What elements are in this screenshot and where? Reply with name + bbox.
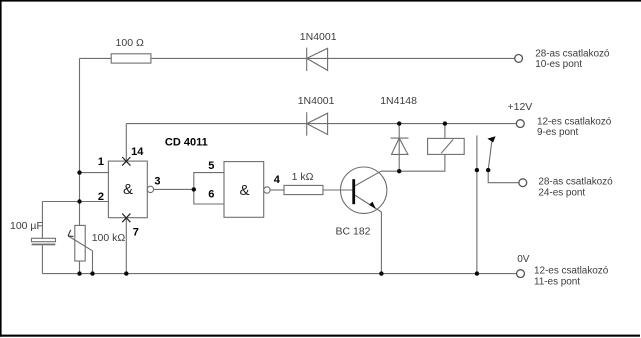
svg-text:9-es pont: 9-es pont [537, 127, 579, 138]
potentiometer P1 wiper arrow [68, 230, 74, 237]
junction dot gate1 pin1 [77, 170, 81, 174]
svg-text:7: 7 [133, 227, 139, 239]
potentiometer P1 wiper diagonal [68, 236, 93, 251]
transistor Q1 circle [341, 167, 387, 213]
transistor Q1 base bar [352, 179, 355, 204]
wire relay bottom [381, 154, 445, 171]
wire resistor to base [323, 189, 353, 191]
nand gate U1b output bubble pin4 [264, 187, 270, 193]
resistor R2 1k [284, 185, 323, 194]
wire top-left horizontal [80, 57, 112, 59]
wire pot wiper down [92, 251, 94, 274]
junction dot switch pole [475, 168, 479, 172]
junction dot rail emitter [379, 271, 383, 275]
svg-text:4: 4 [274, 174, 281, 186]
wire gate1 input pin2 [42, 201, 108, 203]
svg-text:&: & [239, 182, 249, 199]
nand gate U1b box [224, 162, 264, 218]
wire diode D3 vertical [398, 124, 400, 172]
svg-text:28-as csatlakozó: 28-as csatlakozó [538, 177, 613, 188]
wire switch pole vertical [476, 135, 478, 273]
wire gate1 output to gate2 [154, 188, 194, 190]
wire capacitor down [41, 245, 43, 273]
svg-text:0V: 0V [517, 254, 530, 265]
junction dot gate2 input [192, 187, 196, 191]
junction dot gate1 pin2 [77, 199, 81, 203]
svg-text:12-es csatlakozó: 12-es csatlakozó [534, 266, 609, 277]
svg-text:11-es pont: 11-es pont [534, 276, 580, 287]
junction dot row2 relay top [443, 121, 447, 125]
diode D2 1N4001 bar [306, 112, 308, 135]
transistor Q1 emitter line [355, 195, 382, 212]
wire capacitor branch horizontal [41, 202, 43, 239]
junction dot switch blade pivot [486, 168, 490, 172]
transistor Q1 collector line [355, 171, 381, 186]
pin14 X mark [122, 157, 130, 166]
wire pot bottom stub [79, 261, 81, 274]
diode D1 1N4001 bar [306, 48, 308, 71]
wire row2 horizontal [126, 123, 516, 125]
diode D2 1N4001 triangle [307, 113, 328, 134]
svg-text:1N4001: 1N4001 [300, 31, 337, 43]
relay K1 diagonal [441, 139, 453, 153]
junction dot row2 diode top [397, 121, 401, 125]
wire emitter vertical [380, 212, 382, 274]
wire bottom rail [42, 273, 516, 275]
wire gate2 input bracket [194, 173, 224, 204]
svg-text:BC 182: BC 182 [336, 225, 371, 237]
border frame bottom [0, 335, 640, 337]
svg-text:10-es pont: 10-es pont [535, 59, 582, 70]
svg-text:28-as csatlakozó: 28-as csatlakozó [535, 49, 610, 60]
wire gate1 input pin1 [80, 172, 109, 174]
svg-text:12-es csatlakozó: 12-es csatlakozó [537, 117, 612, 128]
nand gate U1a output bubble pin3 [147, 186, 153, 192]
junction dot diode bottom [397, 169, 401, 173]
border frame left [0, 0, 2, 337]
terminal T1 circle [515, 55, 523, 63]
svg-text:+12V: +12V [508, 101, 533, 113]
terminal T2 circle [516, 120, 524, 128]
nand gate U1a box [108, 161, 147, 218]
wire relay top [444, 124, 446, 139]
relay K1 coil box [428, 138, 465, 154]
junction dot rail switch [475, 271, 479, 275]
wire pin14 vertical [125, 124, 127, 162]
svg-text:1: 1 [98, 156, 104, 168]
wire pin7 vertical [125, 218, 127, 274]
border frame top [0, 0, 641, 2]
wire top row to terminal [151, 57, 515, 59]
switch S1 arrow head [487, 136, 495, 142]
wire gate2 output to resistor [270, 189, 284, 191]
svg-text:6: 6 [208, 189, 214, 201]
svg-text:1N4001: 1N4001 [298, 95, 335, 107]
terminal T3 circle [519, 179, 527, 187]
svg-text:24-es pont: 24-es pont [538, 187, 585, 198]
capacitor C1 top plate [32, 238, 56, 241]
svg-text:100 µF: 100 µF [10, 220, 43, 232]
svg-text:CD 4011: CD 4011 [165, 137, 208, 149]
wire switch to terminal [488, 170, 519, 183]
junction dot rail wiper [90, 271, 94, 275]
junction dot rail pin7 [124, 271, 128, 275]
resistor R1 100ohm [111, 54, 151, 63]
capacitor C1 bottom plate [32, 244, 56, 246]
pin7 X mark [122, 214, 130, 223]
terminal T4 circle [517, 270, 525, 278]
potentiometer P1 body [75, 225, 85, 261]
switch S1 blade [488, 142, 492, 171]
wire left rail vertical [79, 58, 81, 225]
svg-text:1 kΩ: 1 kΩ [292, 171, 314, 183]
transistor Q1 emitter arrow [369, 202, 376, 209]
diode D1 1N4001 triangle [307, 48, 328, 70]
junction dot rail pot [77, 271, 81, 275]
svg-text:1N4148: 1N4148 [380, 95, 417, 107]
diode D3 1N4148 bar [391, 137, 409, 139]
svg-text:5: 5 [208, 160, 214, 172]
svg-text:&: & [123, 181, 133, 198]
svg-text:100 kΩ: 100 kΩ [92, 232, 126, 244]
svg-text:100 Ω: 100 Ω [116, 37, 144, 49]
svg-text:2: 2 [98, 191, 104, 203]
svg-text:14: 14 [131, 146, 144, 158]
diode D3 1N4148 triangle [392, 138, 408, 154]
svg-text:3: 3 [154, 175, 160, 187]
